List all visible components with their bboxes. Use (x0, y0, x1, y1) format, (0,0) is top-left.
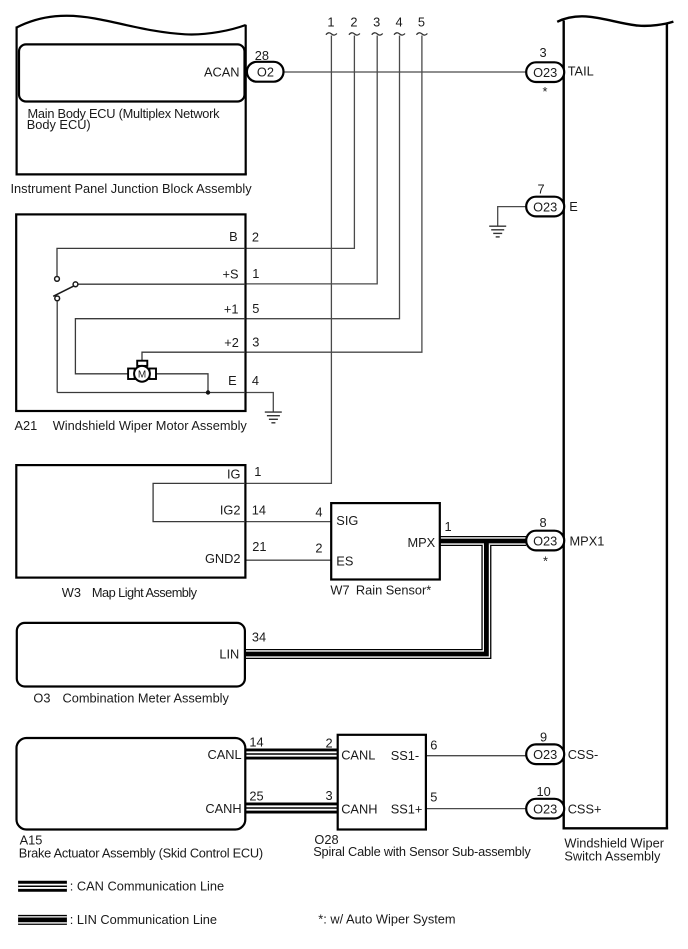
svg-text:Map Light Assembly: Map Light Assembly (92, 585, 198, 600)
internal wire +S to switch pivot (78, 283, 245, 285)
svg-text:5: 5 (418, 15, 425, 30)
break symbol wire 5 (416, 33, 427, 35)
wire O23-7 E to ground (498, 207, 527, 226)
svg-text:SS1+: SS1+ (391, 802, 423, 817)
svg-text:O23: O23 (533, 65, 557, 80)
svg-text:2: 2 (252, 230, 259, 245)
svg-text:O23: O23 (533, 199, 557, 214)
svg-text:3: 3 (373, 15, 380, 30)
ground (switch E) (489, 226, 506, 237)
motor M1 left brush (128, 369, 135, 380)
svg-text:: CAN Communication Line: : CAN Communication Line (70, 879, 224, 894)
svg-text:25: 25 (249, 789, 263, 804)
switch contact circle (B side) (55, 277, 60, 282)
motor M1 right brush (149, 369, 156, 380)
svg-text:8: 8 (539, 515, 546, 530)
svg-text:W3: W3 (62, 585, 81, 600)
svg-text:3: 3 (252, 335, 259, 350)
svg-text:2: 2 (350, 15, 357, 30)
svg-text:W7: W7 (330, 583, 349, 598)
motor M1 body (134, 366, 150, 382)
svg-text:4: 4 (395, 15, 402, 30)
svg-text:M: M (138, 370, 146, 381)
svg-text:Switch Assembly: Switch Assembly (564, 849, 661, 864)
svg-text:SS1-: SS1- (391, 748, 419, 763)
wire ACAN to TAIL (284, 71, 527, 73)
CAN communication line CANL (245, 749, 337, 760)
connector O2 pin 28 (247, 62, 284, 82)
svg-text:14: 14 (252, 502, 266, 517)
wire 4 (+1 riser) (245, 36, 399, 319)
wire SS1+ to CSS+ (426, 808, 526, 810)
svg-text:O3: O3 (33, 690, 50, 705)
internal wire switch to E (56, 301, 58, 393)
svg-text:6: 6 (430, 737, 437, 752)
svg-text:14: 14 (249, 735, 263, 750)
svg-text:2: 2 (326, 736, 333, 751)
svg-text:O23: O23 (533, 801, 557, 816)
junction dot (206, 390, 210, 394)
O3 Combination Meter Assembly box (17, 623, 245, 687)
svg-text:MPX: MPX (407, 535, 435, 550)
svg-text:3: 3 (326, 788, 333, 803)
svg-text:E: E (569, 199, 578, 214)
svg-text:28: 28 (255, 48, 269, 63)
switch contact circle (E side) (55, 296, 60, 301)
switch blade (53, 286, 73, 296)
svg-text:2: 2 (315, 540, 322, 555)
svg-text:CSS+: CSS+ (568, 802, 602, 817)
Main Body ECU inner box (19, 44, 245, 101)
connector O23 pin 10 CSS+ (526, 799, 564, 819)
svg-text:1: 1 (254, 464, 261, 479)
svg-text:34: 34 (252, 630, 266, 645)
svg-text:Windshield Wiper Motor Assembl: Windshield Wiper Motor Assembly (53, 418, 248, 433)
svg-text:*: w/ Auto Wiper System: *: w/ Auto Wiper System (318, 911, 455, 926)
svg-text:3: 3 (539, 45, 546, 60)
Windshield Wiper Switch Assembly box (557, 16, 673, 829)
svg-text:*: * (543, 84, 548, 99)
svg-text:TAIL: TAIL (568, 64, 594, 79)
svg-text:Spiral Cable with Sensor Sub-a: Spiral Cable with Sensor Sub-assembly (313, 844, 531, 859)
wire IG2 to SIG (245, 521, 331, 523)
svg-text:5: 5 (430, 790, 437, 805)
wire 1 (IG riser) (245, 36, 331, 484)
svg-text:5: 5 (252, 301, 259, 316)
svg-text:10: 10 (536, 784, 550, 799)
svg-text:Combination Meter Assembly: Combination Meter Assembly (63, 690, 230, 705)
W7 Rain Sensor box (331, 503, 440, 579)
svg-text:IG2: IG2 (220, 502, 241, 517)
svg-text:GND2: GND2 (205, 551, 241, 566)
internal wire IG to IG2 (153, 483, 245, 521)
svg-text:CANH: CANH (341, 802, 377, 817)
svg-text:Brake Actuator Assembly (Skid: Brake Actuator Assembly (Skid Control EC… (19, 845, 263, 860)
A15 Brake Actuator box (17, 738, 246, 830)
legend CAN line sample (18, 881, 67, 892)
wire SS1- to CSS- (426, 755, 526, 757)
internal wire B to switch contact (57, 248, 245, 276)
svg-text:Instrument Panel Junction Bloc: Instrument Panel Junction Block Assembly (11, 181, 253, 196)
svg-text:+1: +1 (224, 301, 239, 316)
wire E pin to ground (245, 393, 273, 412)
svg-text:4: 4 (315, 504, 322, 519)
connector O23 pin 3 TAIL (526, 62, 564, 82)
svg-text:ACAN: ACAN (204, 64, 240, 79)
svg-text:CANH: CANH (205, 801, 241, 816)
svg-text:1: 1 (445, 519, 452, 534)
svg-text:+2: +2 (224, 335, 239, 350)
svg-text:Body ECU): Body ECU) (27, 117, 91, 132)
svg-text:CSS-: CSS- (568, 747, 599, 762)
wire GND2 to ES (245, 559, 331, 561)
break symbol wire 4 (394, 33, 405, 35)
svg-text:O2: O2 (257, 65, 274, 80)
svg-text:O23: O23 (533, 533, 557, 548)
internal wire E bus (57, 392, 245, 394)
svg-text:Rain Sensor*: Rain Sensor* (356, 583, 431, 598)
A21 Windshield Wiper Motor Assembly box (16, 214, 245, 411)
W3 Map Light Assembly box (16, 465, 245, 577)
connector O23 pin 7 E (526, 197, 564, 217)
internal wire +2 to motor top brush (142, 352, 245, 361)
break symbol wire 3 (372, 33, 383, 35)
switch pivot circle (73, 282, 78, 287)
svg-text:A21: A21 (15, 418, 38, 433)
svg-text:*: * (543, 554, 548, 569)
svg-text:1: 1 (327, 15, 334, 30)
svg-text:O23: O23 (533, 747, 557, 762)
svg-text:9: 9 (540, 730, 547, 745)
connector O23 pin 8 MPX1 (526, 531, 564, 551)
ground (wiper motor E) (265, 412, 282, 423)
svg-text:: LIN Communication Line: : LIN Communication Line (70, 912, 217, 927)
svg-text:CANL: CANL (207, 747, 241, 762)
CAN communication line CANH (245, 803, 337, 814)
svg-text:+S: +S (222, 267, 238, 282)
svg-text:LIN: LIN (219, 647, 239, 662)
svg-text:SIG: SIG (336, 513, 358, 528)
svg-text:4: 4 (252, 373, 259, 388)
svg-text:CANL: CANL (341, 748, 375, 763)
wire 3 (+S riser) (245, 36, 377, 284)
internal wire motor right brush to E junction (156, 374, 208, 393)
motor M1 top brush (137, 361, 147, 366)
break symbol wire 1 (326, 33, 337, 35)
connector O23 pin 9 CSS- (526, 744, 564, 764)
O28 Spiral Cable box (338, 735, 426, 830)
svg-text:7: 7 (537, 181, 544, 196)
Instrument Panel Junction Block Assembly box (16, 16, 247, 175)
LIN communication line (MPX to O23-8, and O3 LIN branch) (245, 541, 526, 654)
legend LIN line sample (18, 915, 67, 925)
svg-text:ES: ES (336, 554, 353, 569)
wire 5 (+2 riser) (245, 36, 422, 353)
svg-text:21: 21 (252, 539, 266, 554)
internal wire +1 to motor left brush (75, 319, 245, 374)
svg-text:B: B (229, 229, 238, 244)
svg-text:1: 1 (252, 266, 259, 281)
svg-text:E: E (228, 373, 237, 388)
svg-text:IG: IG (227, 466, 241, 481)
wire 2 (B riser) (245, 36, 354, 249)
break symbol wire 2 (349, 33, 360, 35)
svg-text:MPX1: MPX1 (570, 534, 605, 549)
